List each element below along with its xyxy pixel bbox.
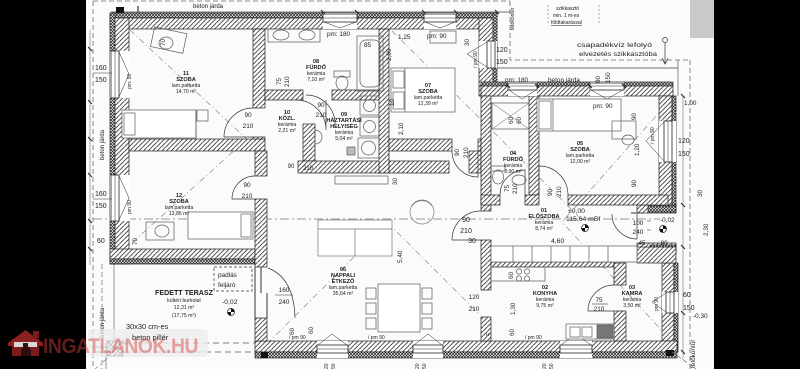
svg-text:30: 30 — [697, 189, 704, 197]
svg-text:min. 1 m-es: min. 1 m-es — [553, 13, 580, 19]
svg-text:60: 60 — [516, 116, 523, 124]
kamra north wall — [637, 247, 676, 263]
svg-text:150: 150 — [683, 305, 695, 312]
svg-text:pm: 90: pm: 90 — [127, 73, 133, 89]
north wall left wing: insulation — [110, 13, 497, 18]
svg-text:-0,30: -0,30 — [693, 313, 708, 320]
svg-text:240: 240 — [633, 229, 644, 236]
stub wall at nook — [469, 151, 481, 173]
door nappali to eloszoba — [452, 211, 481, 240]
svg-text:60: 60 — [683, 292, 691, 299]
svg-text:10: 10 — [389, 98, 396, 106]
svg-text:20: 20 — [324, 363, 330, 369]
wall between 08/09 and room 07 — [379, 29, 389, 173]
bathtub bathroom 08 — [357, 36, 383, 91]
svg-text:160: 160 — [95, 191, 107, 198]
svg-text:35,64 m²: 35,64 m² — [333, 291, 354, 297]
svg-text:60: 60 — [508, 116, 515, 124]
svg-text:4,60: 4,60 — [551, 238, 564, 245]
beton jarda walkway edge right wing — [497, 67, 678, 69]
beton jarda walkway edge north — [111, 11, 510, 13]
svg-text:210: 210 — [243, 123, 254, 130]
west wall: masonry — [115, 18, 129, 264]
svg-text:20: 20 — [542, 363, 548, 369]
bed room 07 — [391, 68, 455, 112]
dimension chain line right — [682, 96, 684, 360]
corner marker block — [116, 7, 124, 13]
konyha south counter with sink and stove — [566, 324, 614, 339]
left black bar — [0, 0, 86, 369]
svg-text:210: 210 — [594, 306, 605, 313]
door room 05 — [539, 166, 568, 195]
corner marker SE — [666, 350, 674, 356]
svg-text:HÁZTARTÁSI: HÁZTARTÁSI — [326, 117, 362, 124]
svg-text:210: 210 — [469, 306, 480, 313]
svg-text:115,64 mBf: 115,64 mBf — [566, 216, 600, 223]
wall between konyha and kamra — [614, 263, 626, 285]
north wall right wing masonry — [481, 86, 673, 96]
svg-text:ELŐSZOBA: ELŐSZOBA — [528, 213, 559, 220]
desk room 11 — [150, 27, 186, 53]
basins bathroom 08 — [268, 29, 320, 42]
svg-text:80: 80 — [660, 240, 668, 247]
window room 05 east — [659, 121, 676, 162]
svg-text:(17,75 m²): (17,75 m²) — [172, 313, 196, 319]
tv console nappali — [335, 176, 388, 184]
east wall right wing — [659, 96, 672, 205]
konyha north counter + cooktop — [491, 267, 545, 281]
window kamra east — [662, 292, 678, 313]
svg-text:20: 20 — [415, 363, 421, 369]
svg-text:/ pm 90: / pm 90 — [473, 51, 479, 68]
svg-text:45: 45 — [638, 240, 646, 247]
bed room 11 — [122, 110, 196, 138]
svg-text:50: 50 — [549, 363, 555, 369]
corner marker SW — [261, 352, 268, 358]
svg-text:3,50 m²: 3,50 m² — [623, 303, 641, 309]
svg-text:60: 60 — [509, 328, 516, 336]
svg-text:150: 150 — [496, 59, 508, 66]
svg-text:60: 60 — [97, 238, 105, 245]
svg-text:70: 70 — [160, 38, 167, 46]
svg-text:-0,02: -0,02 — [660, 217, 675, 224]
svg-text:/ pm 90: / pm 90 — [525, 335, 542, 341]
svg-text:1,25: 1,25 — [398, 34, 411, 41]
svg-text:beton járda: beton járda — [193, 4, 224, 10]
eloszoba cabinet row — [491, 246, 637, 262]
north wall left wing: masonry — [110, 18, 497, 29]
svg-text:120: 120 — [469, 294, 480, 301]
svg-text:ÉTKEZŐ: ÉTKEZŐ — [332, 277, 355, 285]
terrace edge dashed south — [123, 342, 255, 344]
gray utility box top right — [690, 0, 714, 38]
svg-text:90: 90 — [462, 217, 470, 224]
window room 12 west — [110, 175, 130, 221]
eloszoba/konyha partition — [491, 262, 614, 267]
svg-text:7,10 m²: 7,10 m² — [307, 77, 325, 83]
svg-text:75: 75 — [276, 77, 283, 85]
svg-text:pm: 180: pm: 180 — [327, 31, 351, 38]
svg-text:210: 210 — [463, 147, 470, 158]
svg-text:tetőkontúr: tetőkontúr — [690, 339, 697, 368]
door haztartasi 09 — [306, 95, 335, 124]
svg-text:szikkasztó: szikkasztó — [556, 6, 579, 12]
terrace sliding door — [268, 268, 295, 318]
north wall right wing insulation — [481, 82, 673, 86]
window room 11 west — [110, 51, 130, 98]
window furdo 04 north — [508, 82, 537, 96]
svg-text:9,75 m²: 9,75 m² — [536, 303, 554, 309]
svg-text:30: 30 — [392, 177, 399, 185]
svg-text:2,30: 2,30 — [703, 223, 710, 236]
svg-text:tetőkontúr: tetőkontúr — [510, 7, 516, 30]
downpipe marker — [662, 43, 668, 64]
svg-text:3,90 m²: 3,90 m² — [504, 169, 522, 175]
svg-text:feljáró: feljáró — [218, 282, 236, 289]
entry door east — [612, 214, 637, 239]
svg-text:beton járda: beton járda — [548, 77, 580, 84]
armchair nappali — [410, 200, 434, 224]
svg-text:pm 90: pm 90 — [654, 297, 660, 311]
wall between kozl 10 and haztartasi 09 — [303, 124, 315, 161]
svg-text:85: 85 — [364, 42, 372, 49]
svg-text:160: 160 — [95, 65, 107, 72]
svg-text:90: 90 — [595, 75, 602, 83]
svg-text:HELYISÉG: HELYISÉG — [330, 122, 358, 130]
svg-text:90: 90 — [317, 102, 325, 109]
sofa nappali — [318, 220, 392, 256]
svg-text:100: 100 — [633, 220, 644, 227]
svg-text:FÜRDŐ: FÜRDŐ — [306, 64, 327, 71]
svg-text:75: 75 — [595, 297, 603, 304]
svg-text:210: 210 — [303, 166, 314, 172]
svg-text:160: 160 — [279, 287, 290, 294]
svg-text:150: 150 — [678, 151, 690, 158]
window nappali south 1 — [317, 341, 348, 358]
svg-text:5,40: 5,40 — [397, 250, 404, 263]
window room 07 east wall — [479, 41, 497, 68]
svg-text:csapadékvíz lefolyó: csapadékvíz lefolyó — [577, 42, 652, 49]
svg-text:padlás: padlás — [218, 272, 237, 279]
padlas feljaro dashed box — [214, 267, 252, 291]
svg-text:90: 90 — [243, 182, 251, 189]
door room 07 — [452, 151, 478, 177]
washer haztartasi — [360, 96, 379, 115]
toilet bathroom 08 — [334, 71, 350, 77]
level marker terrace — [228, 309, 235, 316]
bed room 05 — [537, 99, 621, 131]
wall south of kozl/haztartasi — [298, 161, 449, 173]
level marker eloszoba — [582, 225, 589, 232]
svg-text:90: 90 — [244, 112, 252, 119]
window room 07 north — [424, 13, 456, 29]
svg-text:90: 90 — [631, 112, 638, 120]
terrace pillar — [107, 341, 123, 356]
svg-text:elvezetés szikkasztóba: elvezetés szikkasztóba — [579, 51, 657, 58]
svg-text:60: 60 — [308, 326, 315, 334]
svg-text:pm: 90: pm: 90 — [593, 103, 613, 110]
svg-text:5,04 m²: 5,04 m² — [335, 136, 353, 142]
svg-text:8,74 m²: 8,74 m² — [535, 226, 553, 232]
svg-text:210: 210 — [284, 76, 291, 87]
svg-text:pm: 180: pm: 180 — [505, 77, 529, 84]
svg-text:150: 150 — [605, 72, 612, 83]
sink haztartasi — [358, 138, 379, 158]
svg-text:földtakarással: földtakarással — [551, 20, 582, 26]
svg-text:beton járda: beton járda — [100, 129, 106, 160]
shower furdo 04 — [492, 103, 529, 129]
dryer haztartasi — [360, 117, 379, 136]
svg-text:FEDETT TERASZ: FEDETT TERASZ — [155, 290, 214, 297]
svg-text:210: 210 — [512, 183, 519, 194]
svg-text:/ pm 90: / pm 90 — [368, 335, 385, 341]
svg-text:210: 210 — [242, 193, 253, 200]
svg-text:210: 210 — [556, 186, 563, 197]
wall south of 04/05 (north of eloszoba) — [481, 195, 500, 205]
roof hip/ridge dashed diagonals — [95, 30, 676, 369]
svg-text:-0,02: -0,02 — [222, 299, 238, 306]
svg-text:90: 90 — [288, 164, 295, 170]
svg-text:pm 90: pm 90 — [127, 200, 133, 214]
svg-text:120: 120 — [678, 138, 690, 145]
svg-text:±0,00: ±0,00 — [568, 208, 585, 215]
desk room 12 — [146, 222, 174, 240]
svg-text:50: 50 — [331, 363, 337, 369]
svg-text:60: 60 — [508, 271, 515, 279]
svg-text:210: 210 — [460, 228, 472, 235]
dimension chain line left — [89, 30, 91, 265]
wall between nappali and eloszoba/konyha + west wall of furdo 04 — [481, 96, 491, 211]
window konyha south — [560, 341, 592, 358]
toilet furdo 04 — [491, 166, 505, 171]
door furdo 04 — [500, 170, 525, 195]
dining table — [378, 284, 420, 332]
door room 12 — [232, 176, 255, 199]
svg-text:pm: 90: pm: 90 — [427, 33, 447, 40]
south wall room 12 — [110, 249, 255, 259]
svg-text:H: H — [486, 332, 489, 337]
svg-text:KÖZL.: KÖZL. — [279, 115, 296, 122]
svg-text:210: 210 — [316, 112, 327, 119]
basin haztartasi west wall — [315, 130, 322, 144]
east wall kamra — [662, 263, 674, 341]
window bathroom 08 north — [323, 13, 357, 29]
window room 05 north — [590, 82, 624, 96]
svg-text:2,10: 2,10 — [398, 122, 405, 135]
logo house icon — [8, 330, 43, 356]
svg-text:30: 30 — [464, 38, 471, 46]
svg-text:1,00: 1,00 — [684, 100, 697, 107]
wardrobe room 07 — [430, 31, 456, 43]
entry niche upper return — [637, 205, 676, 213]
svg-text:FÜRDŐ: FÜRDŐ — [503, 156, 524, 163]
svg-text:12,31 m²: 12,31 m² — [174, 305, 195, 311]
svg-text:90: 90 — [547, 188, 554, 196]
east wall left wing upper — [479, 18, 493, 96]
central wall lower segments (east of room 12 / terrace) — [255, 151, 267, 176]
wall between furdo 04 and room 05 — [529, 96, 539, 195]
svg-text:90: 90 — [631, 179, 638, 187]
window nappali south 2 — [413, 341, 443, 358]
svg-text:14,70 m²: 14,70 m² — [176, 89, 197, 95]
svg-text:2,21 m²: 2,21 m² — [278, 128, 296, 134]
svg-text:120: 120 — [496, 47, 508, 54]
svg-text:INGATLANOK.HU: INGATLANOK.HU — [43, 334, 198, 358]
svg-text:60: 60 — [289, 327, 296, 335]
svg-text:12,00 m²: 12,00 m² — [570, 159, 591, 165]
west wall: insulation — [110, 13, 115, 264]
svg-text:50: 50 — [422, 363, 428, 369]
right black bar — [714, 0, 800, 369]
basin furdo 04 — [512, 175, 526, 185]
central wall upper segment (east of rooms 11) — [253, 29, 265, 108]
door kamra — [588, 285, 614, 311]
desk room 05 — [612, 121, 636, 139]
svg-text:2,00: 2,00 — [386, 48, 393, 61]
wall between rooms 11 and 12 — [129, 139, 265, 151]
svg-text:12,39 m²: 12,39 m² — [418, 101, 439, 107]
roof eaves contour dashed — [93, 1, 690, 369]
svg-text:75: 75 — [504, 184, 511, 192]
svg-text:150: 150 — [95, 203, 107, 210]
dimension tick marks — [88, 10, 685, 354]
level marker entry — [660, 226, 667, 233]
south wall of room 07 — [389, 139, 452, 151]
svg-text:13,86 m²: 13,86 m² — [169, 211, 190, 217]
door bathroom 08 — [296, 100, 326, 130]
building axis dash-dot line — [93, 218, 660, 220]
bed room 12 — [188, 212, 253, 239]
svg-text:kültéri burkolat: kültéri burkolat — [167, 298, 201, 304]
svg-text:150: 150 — [95, 77, 107, 84]
door room 11 — [224, 108, 253, 137]
svg-text:1,30: 1,30 — [510, 302, 517, 315]
svg-text:/ pm 90: / pm 90 — [650, 127, 656, 144]
svg-text:1,20: 1,20 — [634, 143, 641, 156]
svg-text:240: 240 — [279, 299, 290, 306]
wall south of bathroom 08 — [265, 90, 303, 100]
svg-text:90: 90 — [454, 148, 461, 156]
SE corner chunk below entry door — [637, 243, 676, 253]
south wall whole house — [255, 341, 677, 352]
svg-text:70: 70 — [132, 237, 139, 245]
watermark box — [88, 329, 208, 357]
svg-text:30: 30 — [468, 238, 476, 245]
